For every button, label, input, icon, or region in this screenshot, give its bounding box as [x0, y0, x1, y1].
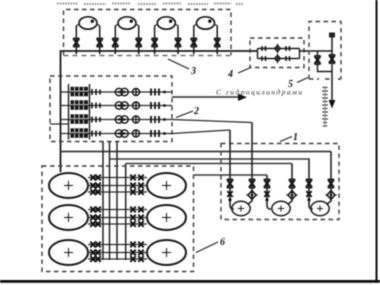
gauge unit A2: [112, 17, 142, 54]
feeder wire V3: [116, 142, 118, 261]
cylinder unit C2L: [49, 205, 88, 230]
distributor row R3: [61, 114, 172, 124]
cylinder unit C1L: [49, 173, 88, 198]
svg-text:1: 1: [293, 132, 298, 143]
leader line for label 3: [168, 59, 189, 69]
feed stub from box 2 left edge: [50, 123, 69, 125]
dashed enclosure box 4 (valve block): [250, 38, 304, 68]
svg-text:2: 2: [193, 106, 199, 117]
distributor row R1: [61, 87, 172, 97]
cylinder unit C1R: [147, 173, 186, 198]
wire bus H4: [194, 174, 267, 176]
svg-text:4: 4: [227, 69, 233, 80]
cylinder unit C3L: [49, 240, 88, 265]
unit 1 tie lines: [88, 175, 147, 195]
wire bus H1: [61, 151, 332, 153]
unit 3 tie lines: [88, 242, 147, 262]
wire row4 extension to box1: [172, 130, 230, 134]
box 4 upper branch valves: [262, 44, 290, 53]
leader line for label 2: [176, 111, 193, 118]
box 4 branch wires: [258, 49, 300, 59]
cylinder unit C2R: [147, 205, 186, 230]
leader line for label 1: [280, 137, 292, 142]
dashed enclosure box 6 (cylinder bank): [42, 166, 194, 272]
outlet arrowhead: [238, 94, 247, 101]
dashed enclosure box 5 (relief valve): [309, 22, 341, 80]
box 4 wire stub to box 5: [300, 50, 333, 52]
valve on main vertical: [329, 55, 335, 64]
bus wire (box 3 manifold to box 4): [61, 51, 258, 172]
gauge unit A3: [151, 17, 181, 54]
frame: right page edge line: [376, 0, 378, 282]
wire row3 extension to box1: [172, 120, 252, 123]
motor unit M3: [306, 152, 337, 216]
dashed enclosure box 2 (distributor block): [50, 76, 172, 142]
feeder wire V2: [109, 142, 111, 261]
box 5 main vertical wire: [331, 36, 333, 102]
motor unit M2: [264, 164, 298, 216]
unit 2 tie lines: [88, 207, 147, 227]
leader line for label 5: [297, 78, 308, 83]
wire bus H3: [126, 163, 292, 165]
block side rails: [69, 84, 90, 140]
scan noise dashes along top: [57, 3, 244, 6]
vertical drain caption (ladder marks): [322, 88, 328, 127]
gauge unit A4: [191, 17, 221, 54]
cylinder unit C3R: [147, 240, 186, 265]
svg-text:С гидроцилиндрами: С гидроцилиндрами: [216, 88, 304, 97]
frame: bottom page edge line: [0, 280, 380, 283]
valve on bypass: [314, 56, 320, 65]
box 5 top plug: [329, 33, 335, 38]
box 3 bottom dashed edge: [64, 55, 232, 57]
leader line for label 6: [196, 242, 218, 253]
distributor row R4: [61, 128, 172, 137]
motor unit M1: [227, 123, 258, 216]
feeder wire V1: [102, 142, 104, 261]
distributor row R2: [61, 100, 172, 110]
wire bus H2: [110, 158, 310, 160]
leader line for label 4: [238, 68, 251, 74]
dashed enclosure box 1 (motor group): [221, 144, 339, 220]
drain arrowhead: [329, 100, 336, 109]
feeder wire V4: [125, 164, 127, 261]
box 4 lower branch valves: [262, 54, 290, 63]
svg-text:6: 6: [220, 237, 225, 248]
svg-text:3: 3: [190, 66, 196, 77]
dashed enclosure box 3 (gauge battery): [64, 10, 232, 56]
box 5 bypass branch: [318, 51, 333, 72]
outlet wire with caption (to cylinders): [172, 96, 242, 98]
gauge unit A1: [73, 17, 103, 54]
